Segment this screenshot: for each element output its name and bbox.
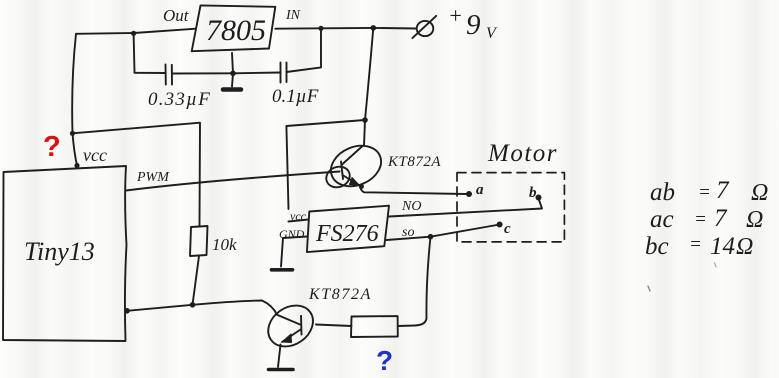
svg-text:IN: IN — [285, 8, 301, 23]
svg-text:7: 7 — [714, 205, 728, 232]
node: junction J2 (vcc branch) — [70, 131, 75, 136]
svg-text:0.1µF: 0.1µF — [272, 86, 319, 107]
svg-text:so: so — [402, 225, 414, 240]
terminal: motor a — [466, 191, 472, 197]
IC U3 FS276 body — [307, 206, 389, 252]
transistor Q1 KT872A — [323, 138, 387, 193]
svg-text:Ω: Ω — [746, 207, 763, 233]
node: junction J7 (10k joins base wire) — [190, 302, 196, 308]
svg-text:=: = — [689, 234, 702, 255]
svg-text:7: 7 — [716, 177, 730, 204]
wire: J6 down to Q1 collector — [364, 120, 365, 146]
regulator U1 7805 body — [192, 5, 276, 51]
stray pen mark right of ac line — [715, 263, 717, 267]
wire: Q2 emitter to ground — [278, 345, 281, 368]
node: junction J1 (0.33uF tap on output rail) — [131, 31, 136, 36]
wire: cap rail to IN rail riser — [287, 28, 322, 72]
wire: vcc(J2) to 10k top, crossing PWM wire — [73, 123, 201, 226]
wire: FS276 GND pin to ground — [281, 237, 307, 267]
svg-text:a: a — [476, 182, 484, 198]
svg-text:FS276: FS276 — [315, 221, 379, 247]
capacitor C1 0.33uF plates — [166, 65, 173, 85]
wire: Q2 collector to R2 — [316, 325, 352, 327]
svg-text:GND: GND — [279, 227, 305, 241]
svg-text:bc: bc — [645, 233, 669, 260]
wire: capacitor rail left segment — [135, 72, 166, 74]
node: junction J4 (0.1uF tap on input rail) — [318, 26, 323, 31]
wire: left 5V rail down to Tiny13 vcc — [72, 34, 77, 166]
wire: FS276 SO to motor terminal c — [387, 225, 500, 241]
wire: J6 to FS276 vcc pin — [286, 120, 365, 209]
node: junction J8 (SO tap down to R2) — [428, 234, 434, 240]
wire: vcc stub into FS276 — [289, 220, 309, 222]
svg-text:=: = — [694, 209, 707, 230]
svg-text:V: V — [486, 25, 498, 42]
svg-text:vcc: vcc — [83, 145, 107, 165]
label: ac = 7 Ohm — [650, 205, 763, 233]
wire: Q1 emitter to motor terminal a — [360, 186, 467, 195]
svg-text:14: 14 — [710, 233, 735, 260]
transistor Q2 KT872A — [260, 297, 321, 355]
IC U2 Tiny13 body — [3, 166, 127, 341]
wire: 7805 IN to +9V terminal — [275, 27, 416, 30]
capacitor C2 0.1uF plates — [281, 63, 287, 83]
node: junction J6 (feeds FS276 vcc and Q1 collector) — [362, 117, 368, 123]
terminal: +9V input (circle with slash) — [412, 16, 436, 38]
ground: Q2 emitter ground symbol — [269, 368, 294, 372]
svg-text:10k: 10k — [212, 235, 237, 254]
label: ab = 7 Ohm — [650, 177, 768, 206]
svg-text:NO: NO — [401, 199, 421, 214]
svg-text:Ω: Ω — [736, 234, 753, 260]
svg-text:Out: Out — [163, 6, 190, 25]
wire: capacitor rail right segment — [233, 72, 281, 75]
ground: FS276 GND symbol — [272, 268, 293, 272]
svg-text:?: ? — [376, 345, 393, 376]
motor M1 dashed outline — [457, 173, 564, 242]
svg-text:0.33µF: 0.33µF — [148, 89, 211, 110]
svg-text:=: = — [698, 182, 711, 203]
wire: Tiny13 lower pin to Q2 base — [127, 301, 277, 315]
wire: FS276 NO to motor terminal b — [389, 199, 542, 217]
node: Tiny13 lower pin — [124, 308, 130, 314]
svg-text:?: ? — [43, 131, 61, 163]
svg-text:Tiny13: Tiny13 — [24, 237, 95, 266]
svg-text:PWM: PWM — [136, 170, 170, 185]
svg-text:9: 9 — [466, 9, 481, 41]
resistor R1 10k body — [190, 226, 208, 256]
wire: 5V output rail (7805 Out to left bend) — [76, 29, 196, 34]
stray pen mark near bc line — [648, 286, 650, 291]
svg-text:ac: ac — [650, 206, 674, 233]
svg-text:7805: 7805 — [206, 14, 266, 47]
svg-text:+: + — [448, 3, 463, 28]
terminal: motor b — [536, 195, 542, 201]
label: bc = 14 Ohm — [645, 233, 753, 260]
svg-text:KT872A: KT872A — [308, 286, 372, 303]
node: Tiny13 vcc pin — [74, 163, 79, 168]
svg-text:Ω: Ω — [751, 180, 768, 206]
wire: J5 down to J6 — [365, 28, 373, 120]
terminal: motor c — [497, 222, 503, 228]
node: Q1 emitter blob — [359, 184, 364, 189]
svg-text:c: c — [504, 221, 511, 237]
ground: 7805 GND symbol — [223, 87, 241, 92]
wire: capacitor rail middle segment — [172, 72, 233, 74]
node: junction J5 (+9V branch down) — [371, 25, 377, 31]
svg-text:Motor: Motor — [487, 140, 558, 167]
svg-text:vcc: vcc — [290, 209, 307, 223]
wire: 7805 GND pin — [232, 53, 233, 87]
wire: J1 drop to capacitor rail — [133, 33, 136, 72]
svg-text:b: b — [529, 185, 537, 201]
wire: J8 down to R2 right side — [398, 237, 431, 326]
resistor R2 (unlabeled) body — [351, 316, 398, 337]
svg-text:ab: ab — [650, 179, 675, 206]
wire: PWM pin to Q1 base — [125, 172, 339, 191]
node: junction J3 (GND pin on cap rail) — [230, 71, 236, 77]
svg-text:KT872A: KT872A — [387, 154, 441, 170]
wire: 10k bottom to base node — [193, 256, 200, 305]
